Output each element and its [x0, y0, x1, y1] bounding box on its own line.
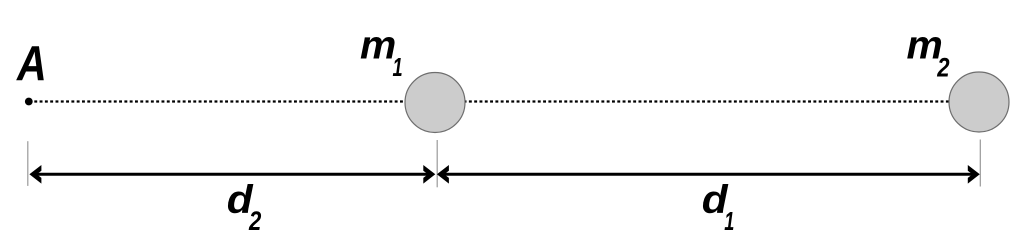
svg-text:m: m: [360, 22, 396, 68]
svg-text:2: 2: [248, 207, 261, 237]
svg-text:1: 1: [724, 207, 734, 236]
svg-text:A: A: [16, 36, 47, 91]
svg-text:1: 1: [393, 53, 403, 82]
svg-text:2: 2: [936, 54, 949, 84]
